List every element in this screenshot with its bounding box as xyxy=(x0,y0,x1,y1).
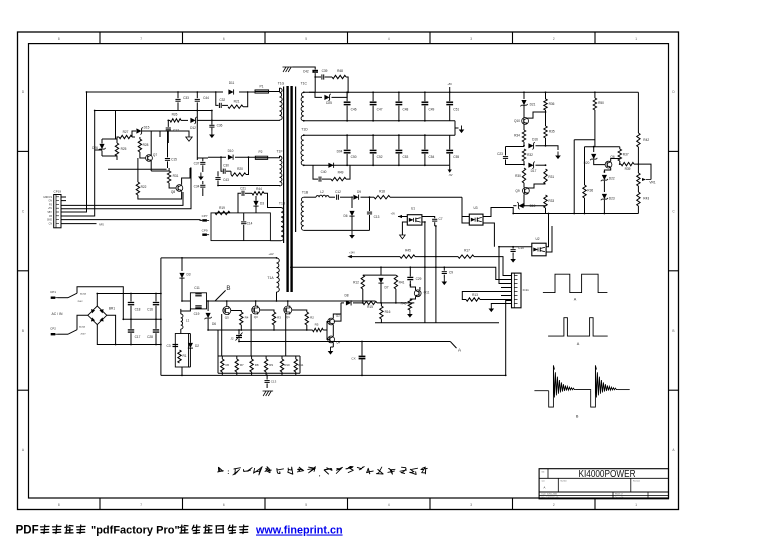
svg-text:C17: C17 xyxy=(173,128,179,132)
svg-text:AC5A: AC5A xyxy=(80,293,86,296)
diode D3 aux xyxy=(253,201,258,206)
capacitor C48 xyxy=(398,92,400,101)
svg-text:C51: C51 xyxy=(453,107,459,111)
zone tick marks xyxy=(99,32,101,44)
junction dots xyxy=(313,71,315,73)
wire gate bus xyxy=(208,329,307,331)
svg-text:P1: P1 xyxy=(259,85,263,89)
wire U3 outputs xyxy=(483,208,513,217)
CP19 wire 2 xyxy=(61,168,191,209)
svg-text:Q1: Q1 xyxy=(286,315,290,319)
capacitor C42 xyxy=(293,67,316,70)
svg-text:B: B xyxy=(672,329,674,333)
svg-text:R42: R42 xyxy=(643,138,649,142)
svg-text:+5V: +5V xyxy=(447,82,452,86)
optocoupler U2 xyxy=(532,243,546,256)
svg-text:8: 8 xyxy=(58,503,60,507)
resistor R37 xyxy=(619,147,621,149)
svg-text:R33: R33 xyxy=(548,199,554,203)
resistor R9 xyxy=(265,356,267,359)
resistor R5 xyxy=(313,328,324,331)
diode D26 xyxy=(101,139,103,144)
svg-text:+5V: +5V xyxy=(48,208,53,210)
connector CP19 xyxy=(54,195,61,228)
svg-text:D04: D04 xyxy=(337,150,343,154)
svg-text:C43: C43 xyxy=(223,178,229,182)
svg-text:D2: D2 xyxy=(195,344,199,348)
svg-text:R4: R4 xyxy=(245,316,249,320)
svg-text:R17: R17 xyxy=(464,249,470,253)
diode D10 xyxy=(228,155,233,160)
CP19 wire 4 xyxy=(61,215,95,217)
diode D6 main xyxy=(207,301,209,311)
transistor Q8 xyxy=(176,185,183,192)
svg-text:C12: C12 xyxy=(335,190,341,194)
wire U2 right up xyxy=(546,214,548,247)
svg-text:8: 8 xyxy=(58,37,60,41)
svg-text:4: 4 xyxy=(388,37,390,41)
svg-text:C13: C13 xyxy=(374,215,380,219)
svg-text:FB: FB xyxy=(49,216,52,218)
svg-text:5: 5 xyxy=(305,503,307,507)
capacitor C9 xyxy=(443,267,445,270)
svg-text:AC5A: AC5A xyxy=(79,326,85,329)
resistor R28 xyxy=(138,139,141,152)
svg-text:C39: C39 xyxy=(322,69,328,73)
fuse P2 xyxy=(255,156,267,159)
svg-text:C47: C47 xyxy=(377,107,383,111)
svg-text:6: 6 xyxy=(223,37,225,41)
svg-text:7: 7 xyxy=(140,503,142,507)
svg-text:R28: R28 xyxy=(143,143,149,147)
capacitor C51 xyxy=(449,92,451,101)
svg-text:B: B xyxy=(576,415,579,419)
svg-text:R12: R12 xyxy=(353,281,359,285)
snubber C39 R48 xyxy=(315,76,321,78)
svg-text:R50: R50 xyxy=(598,101,604,105)
svg-text:CP7: CP7 xyxy=(202,214,208,218)
capacitor C54 xyxy=(424,135,426,149)
svg-text:R31: R31 xyxy=(548,175,554,179)
svg-text:C32: C32 xyxy=(219,98,225,102)
R13 loop xyxy=(462,292,511,300)
svg-text:250V: 250V xyxy=(80,334,86,336)
zener D23 xyxy=(602,194,607,199)
snubber C32 R21 loop xyxy=(216,92,219,105)
wire secondary rail3 xyxy=(304,134,455,136)
svg-text:R36: R36 xyxy=(587,189,593,193)
svg-text:Drawn By:: Drawn By: xyxy=(615,497,625,499)
ground right mid xyxy=(557,152,559,156)
VR1 resistor body xyxy=(637,173,640,186)
svg-text:VR1: VR1 xyxy=(649,181,655,185)
transformer winding T1A xyxy=(277,258,280,292)
svg-text:D26: D26 xyxy=(92,146,98,150)
wire box top xyxy=(574,139,595,141)
svg-text:"pdfFactory Pro": "pdfFactory Pro" xyxy=(91,525,180,537)
svg-text:Q10: Q10 xyxy=(514,119,520,123)
wire doubler mid rail xyxy=(123,318,161,320)
svg-text:R5: R5 xyxy=(315,323,319,327)
svg-text:C48: C48 xyxy=(402,107,408,111)
IC11 pin stubs xyxy=(501,287,512,289)
svg-text:D9: D9 xyxy=(357,190,361,194)
svg-text:Q4: Q4 xyxy=(336,340,340,344)
svg-text:6: 6 xyxy=(223,503,225,507)
capacitor C49 xyxy=(424,92,426,101)
resistor R39 xyxy=(621,162,634,165)
resistor R42 xyxy=(637,133,640,147)
waveform A2 narrow pulses xyxy=(548,318,608,336)
capacitor CX xyxy=(361,342,363,356)
wire primary return y120 xyxy=(168,119,170,121)
capacitor C18 xyxy=(130,294,132,302)
svg-text:C21: C21 xyxy=(240,186,246,190)
svg-text:2: 2 xyxy=(553,503,555,507)
ground near Q7 xyxy=(188,131,190,137)
svg-text:R26: R26 xyxy=(172,112,178,116)
capacitor C7 xyxy=(422,217,435,219)
svg-text:A: A xyxy=(577,342,580,346)
svg-text:+24V: +24V xyxy=(349,252,355,255)
resistor R19 xyxy=(215,211,230,214)
svg-text:R1: R1 xyxy=(182,354,186,358)
diode D15 xyxy=(132,136,135,138)
capacitor C12 xyxy=(329,196,335,198)
svg-text:5: 5 xyxy=(305,37,307,41)
optocoupler U3 xyxy=(469,214,483,225)
svg-text:R20: R20 xyxy=(237,167,243,171)
box around Q6 xyxy=(585,146,620,148)
resistor R32 xyxy=(522,149,525,161)
svg-text:R34: R34 xyxy=(514,134,520,138)
diode D8 xyxy=(341,302,344,304)
capacitor C16 xyxy=(155,294,157,302)
connector IC11 xyxy=(512,273,522,308)
terminal CP7 xyxy=(202,219,207,221)
resistor R33 xyxy=(544,195,547,208)
resistor R36b xyxy=(584,184,586,186)
svg-text:PDF: PDF xyxy=(16,525,39,537)
svg-text:C11: C11 xyxy=(194,286,200,290)
resistor R16 xyxy=(380,303,382,306)
wire bridge top xyxy=(97,294,161,307)
transistor Q2 xyxy=(328,318,335,325)
resistor R10 xyxy=(281,356,283,359)
terminal CP1 xyxy=(51,297,56,299)
resistor R15 xyxy=(363,301,377,304)
svg-text:B: B xyxy=(226,285,230,292)
svg-text:Q11: Q11 xyxy=(424,290,430,294)
svg-text:R44: R44 xyxy=(256,187,262,191)
svg-text:R25: R25 xyxy=(121,147,127,151)
svg-text:R36: R36 xyxy=(549,102,555,106)
resistor R7 xyxy=(236,356,238,359)
svg-text:C36: C36 xyxy=(217,124,223,128)
svg-text:R30: R30 xyxy=(515,174,521,178)
wire secondary top rail xyxy=(304,91,450,93)
resistor R35b xyxy=(544,126,547,138)
svg-text:KI4000POWER: KI4000POWER xyxy=(579,469,636,480)
svg-text:R48: R48 xyxy=(337,69,343,73)
Q2 Q4 wiring xyxy=(332,325,334,337)
bottom resistor bank R6-R11 xyxy=(218,355,300,357)
resistor R34 xyxy=(522,130,525,142)
IC11 ground xyxy=(491,304,511,305)
svg-text:C7: C7 xyxy=(438,217,442,221)
ground below C36 xyxy=(211,131,213,135)
svg-text:+HV: +HV xyxy=(268,252,273,256)
resistor R6 xyxy=(221,356,223,359)
capacitor C52 xyxy=(372,135,374,149)
svg-text:R35: R35 xyxy=(549,130,555,134)
transistor Q10 xyxy=(522,118,529,125)
resistor R43 xyxy=(637,192,640,206)
wire section left edge xyxy=(160,258,162,376)
svg-text:C42: C42 xyxy=(303,70,309,74)
resistor R31b xyxy=(544,169,547,184)
wire section bottom xyxy=(161,374,506,376)
svg-text:C29: C29 xyxy=(416,277,422,281)
svg-text:title: title xyxy=(542,471,545,474)
transformer winding T1B left xyxy=(281,208,284,241)
svg-text:D6: D6 xyxy=(212,322,216,326)
svg-text:D3: D3 xyxy=(260,202,264,206)
mosfet Q3 xyxy=(252,306,260,314)
wire secondary rail4 xyxy=(304,164,450,166)
svg-text:C19: C19 xyxy=(194,312,200,316)
capacitor C36 xyxy=(211,111,213,125)
capacitor C10 xyxy=(499,246,532,248)
svg-text:CP9: CP9 xyxy=(202,228,208,232)
capacitor C28 xyxy=(155,319,157,329)
wire D8 left drop xyxy=(334,303,341,321)
svg-text::: : xyxy=(227,469,229,476)
terminal CP9 xyxy=(202,234,207,236)
svg-text:P2: P2 xyxy=(258,150,262,154)
svg-text:R41: R41 xyxy=(399,281,405,285)
wire right edge x638 xyxy=(637,92,639,133)
capacitor C3 xyxy=(173,344,179,346)
terminal arrow +5V to U1 xyxy=(398,216,407,218)
sub-rail R12 D7 R41 xyxy=(363,274,396,276)
ground bottom xyxy=(263,391,266,396)
svg-text:GND: GND xyxy=(47,220,52,222)
transistor Q11 xyxy=(414,290,421,297)
capacitor C55 xyxy=(449,135,451,149)
ground slanted top xyxy=(283,67,286,72)
svg-text:D25: D25 xyxy=(326,101,332,105)
wire cluster frame xyxy=(95,149,102,151)
transistor Q7 xyxy=(146,155,153,162)
transformer winding T1B right xyxy=(301,197,304,230)
CP19 wire 1 xyxy=(61,192,183,205)
zener D21 xyxy=(521,100,526,105)
note chinese text xyxy=(217,467,224,472)
svg-text:T1G: T1G xyxy=(278,82,285,86)
wire top rail y92 xyxy=(87,91,224,93)
svg-text:Q5: Q5 xyxy=(225,315,229,319)
svg-text:R11: R11 xyxy=(298,363,303,367)
snubber C30 R20 xyxy=(221,157,223,171)
net A vertical from IC11 xyxy=(506,301,512,376)
net A wire xyxy=(239,341,450,343)
C11/C19 box xyxy=(190,293,206,309)
transformer T1 core xyxy=(286,86,288,292)
transistor Q6 xyxy=(605,161,612,168)
svg-text:C14: C14 xyxy=(247,222,253,226)
wire C10 left vertical xyxy=(499,247,512,284)
zener D19 xyxy=(523,194,525,206)
svg-text:R2: R2 xyxy=(310,316,314,320)
inductor L2 xyxy=(316,195,329,197)
diode D9 xyxy=(353,195,358,200)
svg-text:C34: C34 xyxy=(194,184,200,188)
svg-text:U1: U1 xyxy=(411,207,415,211)
resistor R12 xyxy=(361,275,364,289)
capacitor C37 xyxy=(196,111,198,161)
svg-text:D17: D17 xyxy=(531,169,537,173)
svg-text:Revision: Revision xyxy=(633,481,640,483)
svg-text:C9: C9 xyxy=(449,271,453,275)
transformer winding T1C xyxy=(301,92,304,121)
wire AC top path xyxy=(77,287,123,320)
svg-text:R21: R21 xyxy=(234,99,240,103)
+5V mark xyxy=(449,87,451,92)
svg-text:CP1: CP1 xyxy=(50,290,56,294)
svg-text:R15: R15 xyxy=(367,305,373,309)
svg-text:R6: R6 xyxy=(225,363,229,367)
svg-text:R7: R7 xyxy=(240,363,244,367)
svg-text:C33: C33 xyxy=(183,96,189,100)
transformer winding T1G xyxy=(280,88,283,120)
svg-text:C37: C37 xyxy=(194,161,200,165)
capacitor C15 xyxy=(167,147,169,157)
border frame inner xyxy=(29,44,669,498)
capacitor C44 xyxy=(196,92,198,98)
svg-text:R40: R40 xyxy=(401,302,407,306)
svg-text:D6: D6 xyxy=(343,214,347,218)
svg-text:D7: D7 xyxy=(384,286,388,290)
svg-text:AC / IN: AC / IN xyxy=(52,312,63,316)
svg-text:-5V: -5V xyxy=(448,173,452,177)
wire AC lower path xyxy=(77,315,89,329)
svg-text:R18: R18 xyxy=(379,190,385,194)
svg-text:D12: D12 xyxy=(190,126,196,130)
svg-text:T1A: T1A xyxy=(267,276,274,280)
svg-text:L2: L2 xyxy=(320,190,324,194)
svg-text:C52: C52 xyxy=(377,155,383,159)
CP19 wire 6 xyxy=(61,223,97,225)
svg-text:C18: C18 xyxy=(135,308,141,312)
capacitor C47 xyxy=(372,92,374,101)
switch S2 xyxy=(58,333,69,335)
svg-text:D10: D10 xyxy=(228,149,234,153)
ground mid xyxy=(200,173,202,177)
svg-text:Q7: Q7 xyxy=(153,153,157,157)
capacitor C50 xyxy=(346,135,348,149)
fuse P1 xyxy=(255,90,269,93)
wire secondary rail2 xyxy=(304,120,455,122)
resistor R1 xyxy=(178,350,181,363)
svg-text:C28: C28 xyxy=(147,335,153,339)
wire rail2 xyxy=(290,267,512,279)
net A callout xyxy=(450,342,456,349)
capacitor C46 xyxy=(346,92,348,101)
svg-text:IC11: IC11 xyxy=(523,288,529,292)
svg-text:R19: R19 xyxy=(219,206,225,210)
svg-text:CP2: CP2 xyxy=(50,327,56,331)
svg-text:2: 2 xyxy=(553,37,555,41)
CP19 wire 5 xyxy=(61,219,202,222)
svg-text:D22: D22 xyxy=(609,177,615,181)
svg-text:C46: C46 xyxy=(351,107,357,111)
svg-text:3: 3 xyxy=(470,503,472,507)
wire T1A bottom to B rail xyxy=(276,292,278,301)
svg-text:R49: R49 xyxy=(338,170,344,174)
wire T1B right bottom xyxy=(304,229,370,231)
svg-text:3: 3 xyxy=(470,37,472,41)
diode D7 xyxy=(378,278,383,283)
svg-text:C55: C55 xyxy=(453,155,459,159)
snubber C21 R44 xyxy=(238,193,241,213)
svg-text:NFS: NFS xyxy=(99,224,104,227)
svg-text:R9: R9 xyxy=(269,363,273,367)
svg-text:1: 1 xyxy=(635,37,637,41)
transformer T1 shield bars xyxy=(283,87,285,244)
svg-text:7: 7 xyxy=(140,37,142,41)
svg-text:Q8: Q8 xyxy=(171,190,175,194)
resistor R11 xyxy=(295,356,297,359)
capacitor C14 xyxy=(243,213,245,221)
svg-text:C13: C13 xyxy=(271,380,277,384)
svg-text:PS: PS xyxy=(49,204,53,206)
capacitor C17 xyxy=(166,127,171,129)
svg-text:T1D: T1D xyxy=(301,128,308,132)
wire vertical x94.7 xyxy=(61,111,95,217)
svg-text:R32: R32 xyxy=(527,153,533,157)
capacitor C34 xyxy=(202,181,204,184)
svg-text:C17: C17 xyxy=(135,335,141,339)
wire bridge bottom xyxy=(97,325,161,345)
svg-text:A: A xyxy=(574,298,577,302)
CP19 wire 3 xyxy=(61,211,87,213)
diode D12 xyxy=(190,118,195,123)
svg-text:Q3: Q3 xyxy=(254,315,258,319)
diode D04 xyxy=(328,163,333,168)
resistor R41 xyxy=(394,275,397,289)
svg-text:R27: R27 xyxy=(123,130,129,134)
svg-text:C54: C54 xyxy=(428,155,434,159)
svg-text:CP19: CP19 xyxy=(54,189,62,193)
inductor L1 xyxy=(180,309,182,314)
resistor R36a xyxy=(545,92,547,99)
wire U1 outputs vertical xyxy=(422,222,425,323)
svg-text:4: 4 xyxy=(388,503,390,507)
resistor R4 xyxy=(240,312,243,325)
ground sec mid xyxy=(455,121,459,128)
svg-text:Sheet of: Sheet of xyxy=(615,493,623,496)
diode D20 xyxy=(593,147,595,152)
resistor R45 xyxy=(400,255,415,258)
+5V arrow rail1 xyxy=(347,255,352,258)
mosfet Q1 xyxy=(284,306,292,314)
resistor R30 xyxy=(522,168,525,183)
svg-text:T1C: T1C xyxy=(301,82,308,86)
border frame outer xyxy=(18,32,679,510)
switch S1 xyxy=(58,297,69,299)
svg-text:Date: 5-Mar-2001: Date: 5-Mar-2001 xyxy=(542,493,559,496)
